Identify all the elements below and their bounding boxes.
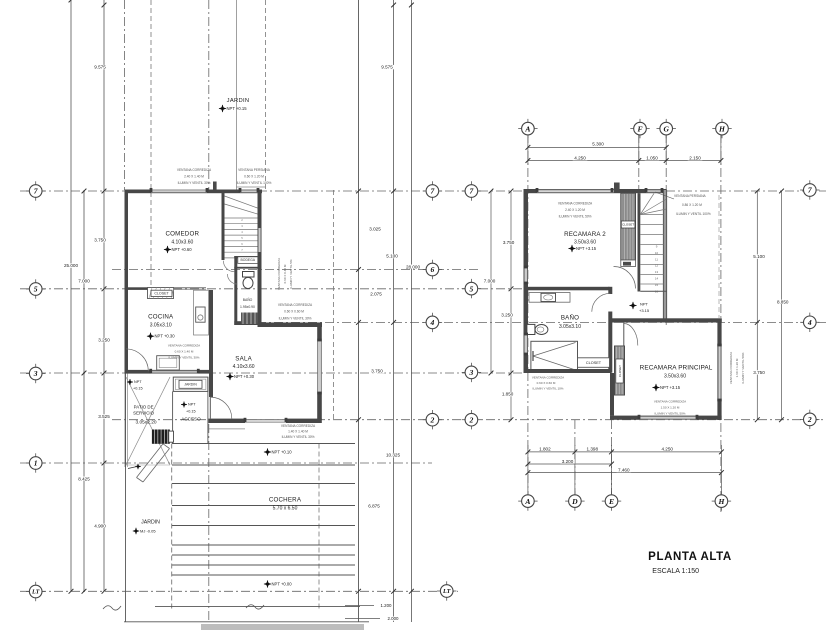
svg-text:H: H bbox=[717, 497, 725, 506]
svg-text:VENTANA CORREDIZA: VENTANA CORREDIZA bbox=[277, 258, 281, 290]
svg-text:NPT +0.30: NPT +0.30 bbox=[155, 334, 176, 339]
svg-text:2: 2 bbox=[469, 415, 474, 424]
svg-text:VENTANA CORREDIZA: VENTANA CORREDIZA bbox=[532, 376, 564, 380]
svg-text:3.05x3.10: 3.05x3.10 bbox=[559, 324, 581, 330]
svg-text:PATIO DE: PATIO DE bbox=[134, 405, 154, 410]
svg-text:4: 4 bbox=[430, 318, 435, 327]
svg-text:3.750: 3.750 bbox=[753, 370, 765, 375]
svg-text:1.050: 1.050 bbox=[646, 156, 658, 161]
svg-text:ILUMIN Y VENTIL 50%: ILUMIN Y VENTIL 50% bbox=[741, 352, 745, 383]
svg-text:D: D bbox=[571, 497, 578, 506]
svg-text:2.150: 2.150 bbox=[689, 156, 701, 161]
svg-text:1.200: 1.200 bbox=[381, 603, 393, 608]
svg-text:BAÑO: BAÑO bbox=[243, 297, 253, 302]
svg-text:VENTANA CORREDIZA: VENTANA CORREDIZA bbox=[558, 202, 593, 206]
svg-text:1.850: 1.850 bbox=[502, 392, 514, 397]
svg-text:NPT: NPT bbox=[134, 380, 142, 384]
svg-text:COCINA: COCINA bbox=[148, 314, 174, 321]
svg-text:JARDIN: JARDIN bbox=[184, 382, 197, 386]
svg-text:4.250: 4.250 bbox=[661, 446, 673, 451]
svg-text:CLOSET: CLOSET bbox=[618, 365, 622, 377]
svg-text:ILUMIN Y VENTIL 100%: ILUMIN Y VENTIL 100% bbox=[237, 181, 272, 185]
svg-text:SALA: SALA bbox=[235, 355, 252, 362]
svg-text:COCHERA: COCHERA bbox=[269, 497, 302, 504]
svg-text:4.900: 4.900 bbox=[94, 523, 106, 528]
svg-text:ILUMIN Y VENTIL 30%: ILUMIN Y VENTIL 30% bbox=[169, 356, 200, 360]
svg-text:0.60 X 0.60 M: 0.60 X 0.60 M bbox=[537, 381, 556, 385]
svg-text:E: E bbox=[608, 497, 614, 506]
svg-text:3.250: 3.250 bbox=[98, 338, 110, 343]
svg-text:ACCESO: ACCESO bbox=[181, 416, 201, 421]
svg-text:COMEDOR: COMEDOR bbox=[165, 231, 199, 238]
svg-text:0.60 X 0.40 M: 0.60 X 0.40 M bbox=[283, 264, 287, 283]
svg-text:1.802: 1.802 bbox=[539, 446, 551, 451]
svg-text:5.100: 5.100 bbox=[386, 254, 398, 259]
svg-text:+0.15: +0.15 bbox=[133, 386, 143, 390]
svg-text:2.075: 2.075 bbox=[370, 292, 382, 297]
svg-text:NPT +0.00: NPT +0.00 bbox=[272, 581, 293, 586]
svg-text:RECAMARA 2: RECAMARA 2 bbox=[564, 231, 606, 238]
svg-text:3.750: 3.750 bbox=[503, 240, 515, 245]
svg-text:10: 10 bbox=[655, 251, 659, 255]
svg-text:3.50x3.60: 3.50x3.60 bbox=[664, 373, 686, 379]
svg-text:5.70 x 6.50: 5.70 x 6.50 bbox=[273, 506, 298, 512]
svg-text:NPT +0.10: NPT +0.10 bbox=[272, 449, 293, 454]
svg-text:+0.15: +0.15 bbox=[186, 409, 196, 413]
svg-text:ILUMIN Y VENTIL 10%: ILUMIN Y VENTIL 10% bbox=[533, 387, 564, 391]
svg-text:4: 4 bbox=[807, 318, 812, 327]
svg-text:8.850: 8.850 bbox=[777, 299, 789, 304]
svg-text:3: 3 bbox=[469, 368, 474, 377]
svg-text:ILUMIN Y VENTIL 30%: ILUMIN Y VENTIL 30% bbox=[282, 435, 315, 439]
svg-text:BODEGA: BODEGA bbox=[241, 258, 256, 262]
svg-text:BAÑO: BAÑO bbox=[561, 315, 579, 322]
svg-text:0.86 X 1.20 M: 0.86 X 1.20 M bbox=[682, 203, 702, 207]
svg-text:14: 14 bbox=[655, 277, 659, 281]
svg-text:ESCALA 1:150: ESCALA 1:150 bbox=[652, 568, 699, 575]
svg-text:VENTANA CORREDIZA: VENTANA CORREDIZA bbox=[281, 424, 316, 428]
svg-text:6: 6 bbox=[431, 265, 435, 274]
svg-text:ILUMIN Y VENTIL 30%: ILUMIN Y VENTIL 30% bbox=[178, 181, 211, 185]
svg-text:VENTANA CORREDIZA: VENTANA CORREDIZA bbox=[177, 168, 212, 172]
svg-text:NPT +0.15: NPT +0.15 bbox=[227, 106, 248, 111]
svg-text:2.40 X 1.20 M: 2.40 X 1.20 M bbox=[565, 208, 585, 212]
svg-text:8.425: 8.425 bbox=[78, 476, 90, 481]
svg-text:1.40 X 1.40 M: 1.40 X 1.40 M bbox=[288, 430, 308, 434]
svg-text:1: 1 bbox=[34, 459, 38, 468]
svg-text:+3.15: +3.15 bbox=[639, 308, 650, 313]
svg-text:4.10x3.60: 4.10x3.60 bbox=[171, 239, 193, 245]
svg-text:6.875: 6.875 bbox=[368, 504, 380, 509]
svg-text:7.460: 7.460 bbox=[618, 468, 630, 473]
svg-text:MJ -0.05: MJ -0.05 bbox=[140, 528, 156, 533]
svg-text:13: 13 bbox=[655, 270, 659, 274]
svg-text:LT: LT bbox=[442, 588, 451, 595]
svg-text:A: A bbox=[524, 497, 530, 506]
svg-text:0.60 X 0.60 M: 0.60 X 0.60 M bbox=[284, 310, 304, 314]
svg-text:NPT +0.60: NPT +0.60 bbox=[172, 247, 193, 252]
svg-text:3.05x3.10: 3.05x3.10 bbox=[150, 323, 172, 329]
svg-text:1.398: 1.398 bbox=[587, 446, 599, 451]
svg-text:NPT: NPT bbox=[640, 301, 649, 306]
svg-text:ILUMIN Y VENTIL 30%: ILUMIN Y VENTIL 30% bbox=[279, 317, 312, 321]
svg-text:CLOSET: CLOSET bbox=[586, 361, 602, 365]
svg-text:3.025: 3.025 bbox=[369, 227, 381, 232]
svg-text:3.200: 3.200 bbox=[562, 459, 574, 464]
svg-text:NPT +3.15: NPT +3.15 bbox=[660, 385, 681, 390]
svg-text:3.05x2.20: 3.05x2.20 bbox=[135, 420, 156, 426]
svg-text:5: 5 bbox=[470, 284, 474, 293]
svg-text:F: F bbox=[637, 124, 642, 133]
svg-text:5.100: 5.100 bbox=[753, 254, 765, 259]
svg-text:3.750: 3.750 bbox=[94, 238, 106, 243]
svg-text:3.50x3.60: 3.50x3.60 bbox=[574, 239, 596, 245]
svg-text:25.000: 25.000 bbox=[64, 263, 78, 268]
svg-text:CLOSET: CLOSET bbox=[154, 291, 169, 295]
svg-text:NPT: NPT bbox=[188, 403, 196, 407]
svg-text:3: 3 bbox=[33, 369, 38, 378]
svg-text:5.300: 5.300 bbox=[592, 142, 604, 147]
svg-text:2: 2 bbox=[430, 415, 435, 424]
svg-text:7.000: 7.000 bbox=[484, 279, 496, 284]
svg-text:28.000: 28.000 bbox=[406, 264, 420, 269]
svg-text:A: A bbox=[524, 124, 530, 133]
svg-text:3.250: 3.250 bbox=[501, 313, 513, 318]
svg-text:2.000: 2.000 bbox=[388, 616, 400, 621]
svg-text:11: 11 bbox=[655, 257, 658, 261]
svg-text:NPT +3.15: NPT +3.15 bbox=[576, 246, 597, 251]
svg-text:RECAMARA PRINCIPAL: RECAMARA PRINCIPAL bbox=[640, 365, 713, 372]
svg-text:3.525: 3.525 bbox=[98, 414, 110, 419]
svg-text:CLOSET: CLOSET bbox=[622, 222, 634, 226]
svg-text:VENTANA CORREDIZA: VENTANA CORREDIZA bbox=[278, 303, 313, 307]
svg-text:1.60 X 1.20 M: 1.60 X 1.20 M bbox=[735, 358, 739, 377]
svg-text:7.000: 7.000 bbox=[78, 279, 90, 284]
svg-text:2: 2 bbox=[807, 415, 812, 424]
svg-text:NPT +0.30: NPT +0.30 bbox=[234, 374, 255, 379]
svg-text:ILUMIN Y VENTIL 5%: ILUMIN Y VENTIL 5% bbox=[289, 259, 293, 289]
svg-text:ILUMIN Y VENTIL 50%: ILUMIN Y VENTIL 50% bbox=[559, 215, 592, 219]
svg-text:ILUMIN Y VENTIL 50%: ILUMIN Y VENTIL 50% bbox=[655, 412, 686, 416]
svg-text:G: G bbox=[663, 124, 669, 133]
svg-text:2.40 X 1.40 M: 2.40 X 1.40 M bbox=[184, 175, 204, 179]
svg-text:VENTANA PERSIANA: VENTANA PERSIANA bbox=[674, 194, 707, 198]
svg-text:9.575: 9.575 bbox=[381, 65, 393, 70]
svg-text:4.250: 4.250 bbox=[574, 156, 586, 161]
svg-text:VENTANA PERSIANA: VENTANA PERSIANA bbox=[238, 168, 271, 172]
svg-text:4.10x3.60: 4.10x3.60 bbox=[233, 364, 255, 370]
svg-text:ILUMIN Y VENTIL 100%: ILUMIN Y VENTIL 100% bbox=[676, 212, 711, 216]
svg-text:VENTANA CORREDIZA: VENTANA CORREDIZA bbox=[168, 344, 200, 348]
svg-text:JARDIN: JARDIN bbox=[141, 519, 160, 525]
svg-text:PLANTA ALTA: PLANTA ALTA bbox=[648, 551, 732, 563]
svg-text:H: H bbox=[718, 124, 726, 133]
svg-text:JARDIN: JARDIN bbox=[227, 98, 250, 104]
svg-text:LT: LT bbox=[31, 589, 40, 596]
svg-text:1.50 X 1.20 M: 1.50 X 1.20 M bbox=[661, 406, 680, 410]
svg-text:10.325: 10.325 bbox=[386, 453, 400, 458]
svg-text:1.95x0.90: 1.95x0.90 bbox=[240, 305, 255, 309]
svg-text:SERVICIO: SERVICIO bbox=[133, 411, 154, 416]
svg-text:12: 12 bbox=[655, 264, 659, 268]
svg-text:15: 15 bbox=[655, 283, 659, 287]
svg-text:0.60 X 1.20 M: 0.60 X 1.20 M bbox=[244, 175, 264, 179]
svg-text:9.575: 9.575 bbox=[94, 65, 106, 70]
svg-text:5: 5 bbox=[34, 285, 38, 294]
svg-text:3.750: 3.750 bbox=[371, 369, 383, 374]
svg-text:0.60 X 1.40 M: 0.60 X 1.40 M bbox=[175, 350, 194, 354]
svg-text:VENTANA CORREDIZA: VENTANA CORREDIZA bbox=[729, 352, 733, 384]
svg-text:VENTANA CORREDIZA: VENTANA CORREDIZA bbox=[654, 400, 686, 404]
